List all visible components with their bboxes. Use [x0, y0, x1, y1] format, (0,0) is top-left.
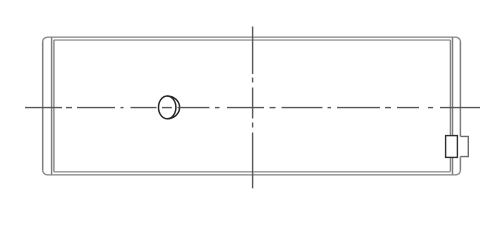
main right parting edge vertical: [452, 37, 454, 175]
shell top inner edge line: [54, 39, 451, 41]
locating lug rectangle (white-filled, covers edge lines): [446, 136, 458, 158]
vertical centerline (dash-dot): [252, 27, 254, 189]
oil hole far-edge arc (through-wall projection, right half-ellipse): [167, 96, 179, 119]
shell top outer edge line: [47, 36, 456, 38]
shell bottom inner edge line: [54, 171, 451, 173]
shell bottom outer edge line: [47, 174, 456, 176]
oil hole outer ellipse: [159, 96, 176, 119]
left side-face bottom corner arc: [43, 170, 47, 175]
right side-face bottom corner arc: [456, 170, 460, 175]
right side-face outer edge vertical (interrupted by tab): [459, 42, 461, 171]
locating tab bump outline: [460, 136, 468, 156]
left side-face outer edge vertical: [42, 42, 44, 171]
inner right chamfer vertical: [449, 40, 451, 172]
main left parting edge vertical: [51, 37, 53, 175]
horizontal centerline (dash-dot): [25, 107, 480, 109]
inner left chamfer vertical: [53, 40, 55, 172]
left side-face top corner arc: [43, 37, 47, 42]
right side-face top corner arc: [456, 37, 460, 42]
